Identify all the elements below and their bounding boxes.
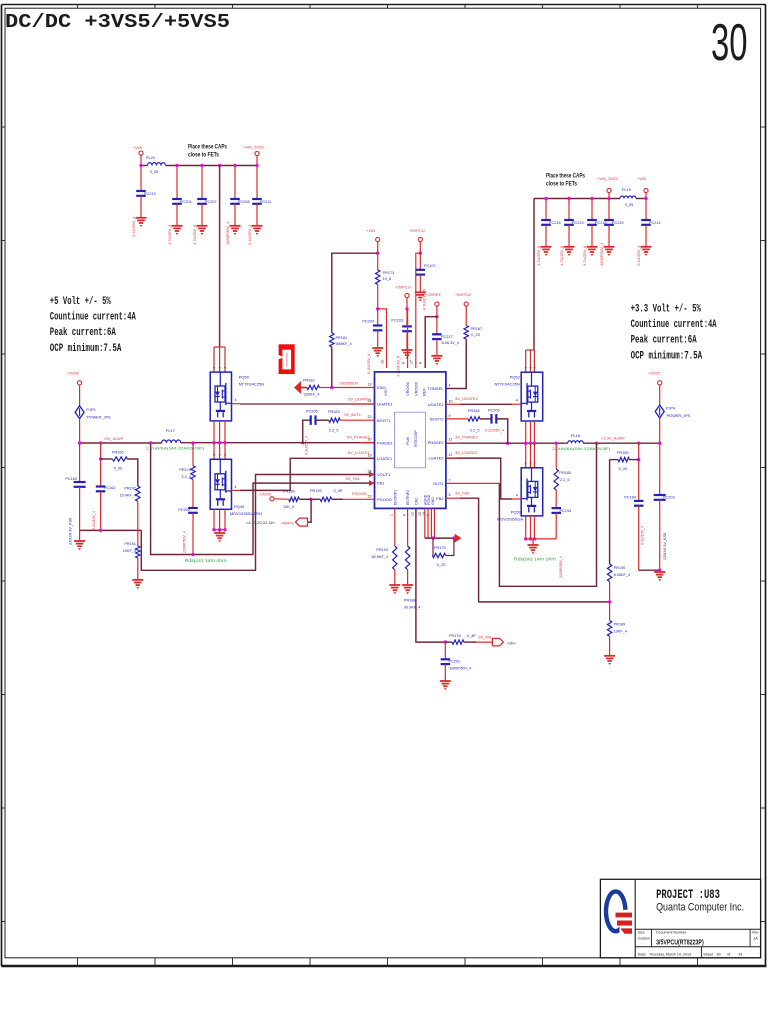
svg-text:PC207: PC207 <box>205 200 217 204</box>
svg-text:4.7U/6.3V_6: 4.7U/6.3V_6 <box>397 356 401 377</box>
svg-text:5V_B0T1: 5V_B0T1 <box>344 412 361 417</box>
svg-text:'330KF_4: '330KF_4 <box>303 393 319 397</box>
svg-text:OCP minimum:7.5A: OCP minimum:7.5A <box>631 351 703 363</box>
svg-text:0_S5: 0_S5 <box>625 203 633 207</box>
svg-text:PC213: PC213 <box>144 192 156 196</box>
svg-text:2200P/50V_4: 2200P/50V_4 <box>559 556 563 578</box>
svg-text:PC184: PC184 <box>624 496 636 500</box>
svg-text:2200P/50V_4: 2200P/50V_4 <box>183 531 187 553</box>
svg-text:FB1: FB1 <box>377 481 385 486</box>
svg-text:PR191: PR191 <box>124 542 136 546</box>
svg-text:Document Number: Document Number <box>656 931 687 935</box>
svg-text:Countinue current:4A: Countinue current:4A <box>50 311 136 323</box>
svg-text:+3V05: +3V05 <box>259 492 271 497</box>
svg-text:PR189: PR189 <box>614 623 626 627</box>
svg-text:10: 10 <box>411 512 415 516</box>
svg-text:2200P/50V_4: 2200P/50V_4 <box>600 243 604 266</box>
svg-text:PC205: PC205 <box>306 410 318 414</box>
svg-text:<4.17,20,31.32>: <4.17,20,31.32> <box>246 520 276 525</box>
svg-text:ENTRIP1: ENTRIP1 <box>393 490 397 505</box>
svg-text:0.1U/25V_4: 0.1U/25V_4 <box>305 436 309 455</box>
svg-text:3V_PHASE2: 3V_PHASE2 <box>455 435 479 440</box>
svg-text:+3V25: +3V25 <box>648 371 660 376</box>
svg-text:+5 Volt +/- 5%: +5 Volt +/- 5% <box>50 296 111 308</box>
svg-text:0.1U/10V_4: 0.1U/10V_4 <box>92 511 96 530</box>
svg-text:4.7U/25V_6: 4.7U/25V_6 <box>537 246 541 266</box>
svg-text:PL20: PL20 <box>146 156 155 160</box>
svg-text:PR184: PR184 <box>468 409 480 413</box>
svg-text:PR188: PR188 <box>404 599 416 603</box>
svg-text:PC211: PC211 <box>260 200 271 204</box>
svg-text:MDV1535SUA: MDV1535SUA <box>497 517 523 522</box>
svg-text:30: 30 <box>716 952 720 956</box>
svg-text:PL17: PL17 <box>166 429 175 433</box>
svg-text:4: 4 <box>516 399 518 403</box>
svg-text:close to FETs: close to FETs <box>546 181 577 188</box>
svg-text:6: 6 <box>403 514 407 516</box>
svg-text:PC201: PC201 <box>449 660 461 664</box>
svg-text:4.7U/25V_6: 4.7U/25V_6 <box>193 225 197 245</box>
svg-text:NTTFS4C25N: NTTFS4C25N <box>494 382 519 387</box>
svg-text:4.7U/25V_6: 4.7U/25V_6 <box>168 225 172 245</box>
svg-text:+5VPCU: +5VPCU <box>409 228 425 233</box>
svg-text:3/5VPCU(RT8223P): 3/5VPCU(RT8223P) <box>656 940 704 947</box>
svg-text:PC194: PC194 <box>560 509 572 513</box>
svg-text:10K_4: 10K_4 <box>283 505 294 509</box>
svg-text:4: 4 <box>235 398 237 402</box>
svg-text:+3.3V_ALWP: +3.3V_ALWP <box>601 436 625 441</box>
svg-text:HWPG: HWPG <box>282 521 294 526</box>
svg-text:+VIN_3V25: +VIN_3V25 <box>597 176 618 181</box>
svg-text:Custom: Custom <box>638 936 650 940</box>
svg-text:8.06KF_4: 8.06KF_4 <box>614 573 630 577</box>
svg-text:VROO6: VROO6 <box>413 381 418 396</box>
svg-text:PQ50: PQ50 <box>239 375 250 380</box>
svg-text:BOOT2: BOOT2 <box>430 417 444 422</box>
svg-text:Rds(on) 14m ohm: Rds(on) 14m ohm <box>514 557 557 562</box>
svg-text:PC203: PC203 <box>663 496 675 500</box>
svg-text:PHASE2: PHASE2 <box>428 440 445 445</box>
svg-text:UGATE1: UGATE1 <box>377 402 393 407</box>
svg-text:16: 16 <box>381 360 385 364</box>
svg-text:PL18: PL18 <box>571 434 580 438</box>
svg-text:GND: GND <box>431 497 435 505</box>
svg-text:15.4KF_4: 15.4KF_4 <box>120 494 136 498</box>
svg-text:Peak current:6A: Peak current:6A <box>50 327 116 339</box>
svg-text:SD055EN: SD055EN <box>340 381 358 386</box>
svg-text:PC206: PC206 <box>488 409 500 413</box>
svg-text:PGOOD: PGOOD <box>377 497 392 502</box>
svg-text:3V_LGATE2: 3V_LGATE2 <box>455 450 478 455</box>
svg-text:TONSEL: TONSEL <box>428 386 445 391</box>
svg-text:10: 10 <box>449 399 453 403</box>
svg-text:NTTFS4C25N: NTTFS4C25N <box>239 382 264 387</box>
svg-text:80.9KF_4: 80.9KF_4 <box>372 555 388 559</box>
svg-text:4.7U/25V_6: 4.7U/25V_6 <box>583 246 587 266</box>
svg-text:PR182: PR182 <box>303 379 315 383</box>
svg-text:PQ49: PQ49 <box>234 504 245 509</box>
svg-text:0.1U/25V_4: 0.1U/25V_4 <box>637 246 641 266</box>
svg-text:<2b>: <2b> <box>507 641 517 646</box>
svg-text:MDV1535SUARH: MDV1535SUARH <box>230 511 262 516</box>
svg-text:UGATE2: UGATE2 <box>428 402 444 407</box>
svg-text:PR190: PR190 <box>614 566 626 570</box>
svg-text:FB2: FB2 <box>436 496 444 501</box>
svg-text:4: 4 <box>449 384 451 388</box>
svg-text:1U/6.3V_4: 1U/6.3V_4 <box>441 341 459 345</box>
svg-text:PR186: PR186 <box>283 490 295 494</box>
svg-text:PR195: PR195 <box>310 489 322 493</box>
svg-text:4: 4 <box>516 494 518 498</box>
svg-text:VOUT1: VOUT1 <box>377 472 391 477</box>
svg-text:10KF_4: 10KF_4 <box>123 549 136 553</box>
svg-text:Date:: Date: <box>638 952 647 956</box>
svg-text:PR180: PR180 <box>617 451 629 455</box>
svg-text:'POWER_JPS: 'POWER_JPS <box>666 414 691 418</box>
svg-text:PR170: PR170 <box>179 468 191 472</box>
svg-text:+5V05: +5V05 <box>67 371 79 376</box>
svg-text:4: 4 <box>235 485 237 489</box>
svg-text:DC/DC +3VS5/+5VS5: DC/DC +3VS5/+5VS5 <box>5 11 230 33</box>
svg-text:PC215: PC215 <box>572 221 584 225</box>
svg-text:PR193: PR193 <box>376 548 388 552</box>
svg-text:PR178: PR178 <box>449 634 461 638</box>
svg-text:Quanta Computer Inc.: Quanta Computer Inc. <box>656 902 744 914</box>
svg-text:2.2_5: 2.2_5 <box>329 429 339 433</box>
svg-text:PQ51: PQ51 <box>511 510 522 515</box>
svg-text:1: 1 <box>390 514 394 516</box>
svg-text:PHASE1: PHASE1 <box>377 440 394 445</box>
svg-text:2200P/50V_4: 2200P/50V_4 <box>226 222 230 245</box>
svg-text:Size: Size <box>638 931 645 935</box>
svg-text:90.9KF_4: 90.9KF_4 <box>404 606 420 610</box>
svg-text:Thursday, March 14, 2013: Thursday, March 14, 2013 <box>649 952 691 956</box>
svg-text:'0_2S: '0_2S <box>436 563 446 567</box>
svg-text:'POWER_JPS: 'POWER_JPS <box>86 416 111 420</box>
svg-text:3V_UGATE2: 3V_UGATE2 <box>455 396 479 401</box>
svg-text:Place these CAPs: Place these CAPs <box>546 173 585 180</box>
svg-text:PROJECT :U83: PROJECT :U83 <box>656 887 720 902</box>
svg-text:PC217: PC217 <box>441 335 453 339</box>
svg-text:'885KF_4: '885KF_4 <box>336 342 352 346</box>
svg-text:PC107: PC107 <box>424 264 436 268</box>
svg-text:PQ52: PQ52 <box>510 375 521 380</box>
svg-text:OUT2: OUT2 <box>433 481 444 486</box>
svg-text:PC208: PC208 <box>238 200 250 204</box>
svg-text:PR173: PR173 <box>383 271 395 275</box>
svg-text:0.1U/10V_4: 0.1U/10V_4 <box>641 526 645 545</box>
svg-text:11: 11 <box>449 438 453 442</box>
svg-text:5V_UGATE1: 5V_UGATE1 <box>348 397 372 402</box>
svg-text:0_4P: 0_4P <box>334 489 343 493</box>
svg-text:9: 9 <box>449 414 451 418</box>
svg-text:VIN: VIN <box>383 389 388 396</box>
svg-text:5: 5 <box>449 493 451 497</box>
svg-text:+VIN: +VIN <box>133 145 142 150</box>
svg-text:8: 8 <box>419 362 423 364</box>
svg-text:close to FETs: close to FETs <box>188 152 219 159</box>
svg-text:+VIN: +VIN <box>366 228 375 233</box>
svg-text:PR181: PR181 <box>336 336 348 340</box>
svg-text:PR150: PR150 <box>112 451 124 455</box>
svg-text:1A: 1A <box>753 935 758 940</box>
svg-text:PGOOD: PGOOD <box>352 491 367 496</box>
svg-text:Rev: Rev <box>752 931 759 935</box>
svg-text:Place these CAPs: Place these CAPs <box>188 144 227 151</box>
svg-text:S5_ON: S5_ON <box>478 635 491 640</box>
svg-text:+5V_ALWP: +5V_ALWP <box>103 436 124 441</box>
svg-text:REF: REF <box>421 387 426 396</box>
svg-text:PR192: PR192 <box>124 487 136 491</box>
svg-text:PL19: PL19 <box>622 188 631 192</box>
svg-text:5V_LGATE1: 5V_LGATE1 <box>348 450 371 455</box>
svg-text:Countinue current:4A: Countinue current:4A <box>631 319 717 331</box>
svg-text:PC183: PC183 <box>65 477 77 481</box>
svg-text:17: 17 <box>410 360 414 364</box>
svg-text:5V_FB1: 5V_FB1 <box>346 476 361 481</box>
svg-text:RT8223P: RT8223P <box>413 430 418 447</box>
svg-text:PC204: PC204 <box>180 200 192 204</box>
svg-text:PR187: PR187 <box>471 327 483 331</box>
svg-text:'2.2_5: '2.2_5 <box>181 475 191 479</box>
svg-text:13: 13 <box>368 383 372 387</box>
svg-text:CNC: CNC <box>414 497 418 505</box>
svg-text:PU8: PU8 <box>405 436 410 445</box>
svg-text:Sheet: Sheet <box>703 952 714 956</box>
svg-text:PC210: PC210 <box>612 221 624 225</box>
svg-text:7: 7 <box>449 478 451 482</box>
svg-text:0.1U/25V_4: 0.1U/25V_4 <box>132 217 136 237</box>
svg-text:PR179: PR179 <box>434 546 446 550</box>
svg-text:0_S5: 0_S5 <box>150 170 158 174</box>
svg-text:'0_05: '0_05 <box>113 467 122 471</box>
svg-text:41: 41 <box>739 952 743 956</box>
svg-text:3V_FB2: 3V_FB2 <box>455 490 470 495</box>
svg-text:LGATE2: LGATE2 <box>428 456 444 461</box>
svg-text:BOOT1: BOOT1 <box>377 418 391 423</box>
svg-text:PR185: PR185 <box>559 471 571 475</box>
svg-text:4.7U/25V_6: 4.7U/25V_6 <box>560 246 564 266</box>
svg-text:+VIN: +VIN <box>637 176 646 181</box>
svg-text:0_4P: 0_4P <box>467 634 476 638</box>
svg-text:LGATE1: LGATE1 <box>377 456 393 461</box>
svg-text:'0_05: '0_05 <box>618 467 627 471</box>
svg-text:ENTRIP2: ENTRIP2 <box>406 490 410 505</box>
svg-text:PR183: PR183 <box>328 410 340 414</box>
svg-text:PC200: PC200 <box>362 320 374 324</box>
svg-text:VROO0: VROO0 <box>405 381 410 396</box>
svg-text:'0_2S: '0_2S <box>471 333 481 337</box>
svg-text:'2.2_5: '2.2_5 <box>559 478 569 482</box>
svg-text:+3.3 Volt +/- 5%: +3.3 Volt +/- 5% <box>631 303 702 315</box>
svg-text:'1000P/50V_4: '1000P/50V_4 <box>449 667 471 671</box>
svg-text:Peak current:6A: Peak current:6A <box>631 335 697 347</box>
svg-text:0.1U/25V_4: 0.1U/25V_4 <box>248 225 252 245</box>
svg-text:10_8: 10_8 <box>383 277 391 281</box>
svg-text:+5VPCU: +5VPCU <box>455 292 471 297</box>
svg-text:Rds(on) 14m ohm: Rds(on) 14m ohm <box>185 558 228 563</box>
svg-text:12: 12 <box>449 453 453 457</box>
svg-text:220U/6.3V_KS6: 220U/6.3V_KS6 <box>663 533 667 560</box>
svg-text:0.1U/25V_4: 0.1U/25V_4 <box>367 354 371 374</box>
svg-text:23: 23 <box>368 494 372 498</box>
svg-text:PC218: PC218 <box>549 221 561 225</box>
svg-text:6: 6 <box>402 362 406 364</box>
svg-text:+VIN_5V25: +VIN_5V25 <box>243 145 264 150</box>
svg-text:PC203: PC203 <box>391 319 403 323</box>
svg-text:5V_PHASE1: 5V_PHASE1 <box>347 434 371 439</box>
svg-text:+2VREF: +2VREF <box>426 292 442 297</box>
svg-text:PC162: PC162 <box>104 486 116 490</box>
svg-text:+3VPCU: +3VPCU <box>395 285 411 290</box>
svg-text:10KF_4: 10KF_4 <box>614 630 627 634</box>
svg-text:30: 30 <box>711 14 748 72</box>
svg-text:22: 22 <box>368 415 372 419</box>
svg-text:PC214: PC214 <box>649 221 661 225</box>
svg-text:OCP minimum:7.5A: OCP minimum:7.5A <box>50 343 122 355</box>
svg-text:2.2uH/6A(SM-32AK6V3P): 2.2uH/6A(SM-32AK6V3P) <box>552 447 610 451</box>
svg-text:2.2_5: 2.2_5 <box>470 429 480 433</box>
svg-text:220U/6.3V_KS6: 220U/6.3V_KS6 <box>69 518 73 545</box>
svg-text:PC202: PC202 <box>178 508 190 512</box>
svg-text:0.1U/25V_4: 0.1U/25V_4 <box>485 429 504 433</box>
svg-text:2.2uH/6A(SM-32AK6V3P): 2.2uH/6A(SM-32AK6V3P) <box>146 447 204 451</box>
svg-text:PJP4: PJP4 <box>666 407 675 411</box>
svg-text:PJP3: PJP3 <box>86 408 95 412</box>
